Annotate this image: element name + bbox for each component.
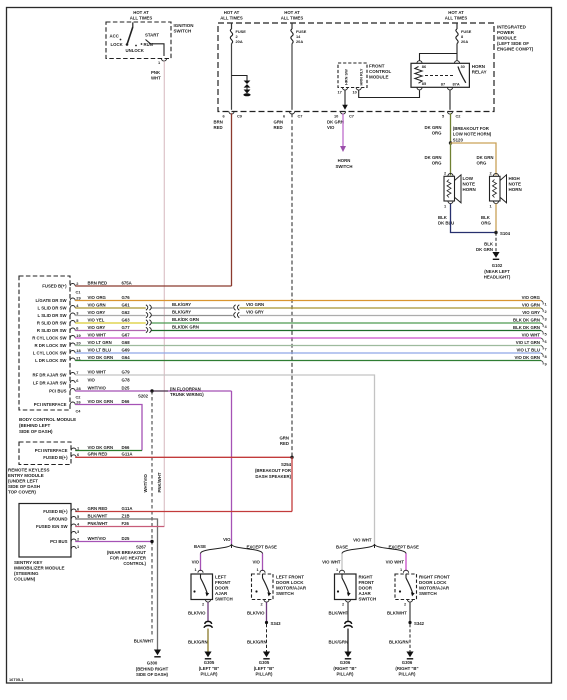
svg-text:VIO WHT: VIO WHT: [353, 538, 372, 543]
svg-text:(LEFT SIDE OF: (LEFT SIDE OF: [497, 41, 529, 46]
svg-text:RIGHT FRONT: RIGHT FRONT: [419, 575, 450, 580]
svg-text:GRN: GRN: [279, 436, 289, 441]
wire VIO WHT to right front door lock motor switch: [386, 554, 406, 572]
ground G305 (left motor switch): [254, 652, 275, 677]
svg-text:AJAR: AJAR: [359, 591, 372, 596]
svg-text:SIDE OF DASH): SIDE OF DASH): [19, 429, 53, 434]
svg-text:BLK/GRY: BLK/GRY: [172, 309, 191, 314]
svg-text:G305: G305: [204, 660, 215, 665]
svg-text:S120: S120: [453, 137, 464, 142]
svg-text:FUSED B(+): FUSED B(+): [43, 455, 68, 460]
wire BLK/VIO below left motor switch: [247, 602, 267, 621]
svg-text:SWITCH: SWITCH: [174, 29, 192, 34]
body control module box: [19, 276, 76, 434]
BCM pin 6 R SLID DR SW wire VIO GRY G77: [37, 325, 130, 333]
wire BLK/DK BLU from low note horn: [438, 204, 496, 233]
BCM pin 28 PCI BUS wire WHT/VIO D25: [49, 385, 130, 393]
svg-text:(UNDER LEFT: (UNDER LEFT: [8, 479, 38, 484]
right front door lock motor/ajar switch: [395, 567, 450, 607]
right front door ajar switch: [335, 567, 377, 607]
svg-text:VIO: VIO: [327, 125, 335, 130]
svg-text:(BREAKOUT FOR: (BREAKOUT FOR: [255, 468, 292, 473]
svg-text:VIO WHT: VIO WHT: [88, 332, 107, 337]
svg-text:BLK/DK GRN: BLK/DK GRN: [172, 317, 199, 322]
svg-text:START: START: [145, 32, 159, 37]
svg-text:BLK: BLK: [481, 215, 491, 220]
svg-text:WHT/VIO: WHT/VIO: [88, 536, 107, 541]
svg-text:HORN: HORN: [509, 187, 522, 192]
svg-text:RIGHT: RIGHT: [359, 575, 373, 580]
svg-text:WHT/VIO: WHT/VIO: [88, 385, 107, 390]
ignition switch label HOT AT ALL TIMES: [130, 10, 153, 21]
svg-text:BASE: BASE: [194, 544, 206, 549]
svg-text:G63: G63: [122, 317, 131, 322]
connector 6 C9: [223, 112, 243, 119]
svg-text:(BREAKOUT FOR: (BREAKOUT FOR: [453, 126, 490, 131]
wire relay pin 87 to connector C2: [449, 90, 451, 110]
svg-text:BLK/WHT: BLK/WHT: [387, 611, 407, 616]
svg-text:R SLID DR SW: R SLID DR SW: [37, 321, 68, 326]
svg-text:16T05-1: 16T05-1: [9, 677, 24, 682]
svg-text:GROUND: GROUND: [48, 517, 67, 522]
wire DK GRN/ORG to high note horn: [451, 143, 497, 175]
svg-text:SWITCH: SWITCH: [215, 597, 233, 602]
diode symbol inside IPM: [243, 81, 250, 97]
svg-text:DK GRN: DK GRN: [425, 125, 442, 130]
svg-text:17: 17: [338, 90, 342, 95]
svg-text:G77: G77: [122, 325, 131, 330]
BCM pin 2 FUSED B(+) wire BRN RED 675A: [42, 280, 132, 288]
svg-text:GRN: GRN: [274, 120, 284, 125]
svg-text:HORN: HORN: [338, 158, 351, 163]
svg-text:GRN RED: GRN RED: [88, 452, 108, 457]
wire VIO LF door ajar vertical: [231, 391, 233, 544]
svg-text:BLK/DK GRN: BLK/DK GRN: [172, 324, 199, 329]
wire branch to diode: [232, 76, 248, 81]
svg-text:(IN FLOORPAN: (IN FLOORPAN: [170, 386, 201, 391]
svg-text:RED: RED: [214, 125, 223, 130]
svg-text:R CYL LOCK SW: R CYL LOCK SW: [32, 336, 67, 341]
svg-text:SWITCH: SWITCH: [419, 591, 437, 596]
svg-text:MOTOR/AJAR: MOTOR/AJAR: [419, 586, 450, 591]
wire FCM pin 17 horn switch input: [342, 90, 348, 110]
svg-text:S343: S343: [271, 621, 282, 626]
wire VIO to left front door ajar switch: [192, 554, 201, 572]
svg-text:ACC: ACC: [110, 33, 119, 38]
svg-text:VIO: VIO: [253, 560, 261, 565]
svg-text:SENTRY KEY: SENTRY KEY: [14, 560, 43, 565]
wire VIO GRY G62 segments: [75, 315, 541, 317]
svg-text:L CYL LOCK SW: L CYL LOCK SW: [33, 351, 68, 356]
inline connector (rows VIO GRN / VIO GRY / VIO YEL / VIO GRY): [146, 305, 151, 333]
svg-text:PILLAR): PILLAR): [256, 672, 274, 677]
splice S267: [107, 540, 154, 566]
wire BLK/GRN dashed to ground G306: [389, 624, 410, 652]
svg-text:UNLOCK: UNLOCK: [126, 48, 145, 53]
svg-text:ALL TIMES: ALL TIMES: [130, 16, 153, 21]
svg-text:ORG: ORG: [432, 131, 442, 136]
svg-text:RELAY: RELAY: [472, 70, 487, 75]
svg-text:VIO DK GRN: VIO DK GRN: [88, 445, 114, 450]
svg-text:G69: G69: [122, 347, 131, 352]
svg-text:HRN SW: HRN SW: [344, 69, 349, 85]
svg-text:HIGH: HIGH: [509, 176, 520, 181]
svg-text:HRN RLY: HRN RLY: [359, 68, 364, 85]
right edge connector labels and pins: [513, 295, 547, 366]
svg-text:FUSED IGN SW: FUSED IGN SW: [36, 524, 68, 529]
wire VIO LT GRN G68: [75, 345, 541, 347]
wire DK GRN/ORG to low note horn: [425, 143, 451, 175]
svg-text:R SLID DR SW: R SLID DR SW: [37, 328, 68, 333]
svg-text:PNK/WHT: PNK/WHT: [88, 521, 108, 526]
svg-text:IMMOBILIZER MODULE: IMMOBILIZER MODULE: [14, 566, 65, 571]
svg-text:HORN: HORN: [463, 187, 476, 192]
horn relay: [411, 61, 487, 90]
svg-text:BLK/GRY: BLK/GRY: [172, 302, 191, 307]
svg-text:ORG: ORG: [477, 161, 487, 166]
svg-text:VIO GRY: VIO GRY: [522, 310, 540, 315]
svg-text:HORN: HORN: [472, 64, 485, 69]
svg-text:L/GATE DR SW: L/GATE DR SW: [36, 298, 68, 303]
svg-text:PCI BUS: PCI BUS: [50, 539, 68, 544]
svg-text:S104: S104: [500, 231, 511, 236]
svg-text:BLK/VIO: BLK/VIO: [247, 611, 265, 616]
svg-text:10: 10: [334, 114, 338, 119]
svg-text:G300: G300: [147, 661, 158, 666]
fuse F2: [230, 23, 246, 44]
RKE wire labels VIO DK GRN D66: [88, 445, 130, 450]
svg-text:RED: RED: [280, 441, 289, 446]
wire BLK/WHT SKIM ground to G300: [75, 513, 157, 649]
splice S120: [449, 126, 492, 145]
wire VIO to left front door lock motor switch: [253, 554, 263, 572]
svg-text:PNK/WHT: PNK/WHT: [157, 472, 162, 492]
svg-text:VIO LT BLU: VIO LT BLU: [88, 347, 112, 352]
svg-text:ORG: ORG: [481, 221, 491, 226]
ignition switch S1: [106, 22, 194, 65]
svg-text:G79: G79: [122, 369, 131, 374]
wire VIO ORG G76: [75, 300, 541, 302]
BCM pin 19 R CYL LOCK SW wire VIO WHT G67: [32, 332, 130, 340]
svg-text:G61: G61: [122, 302, 131, 307]
connector 6 C7: [283, 112, 302, 119]
svg-text:G305: G305: [259, 660, 270, 665]
wire VIO WHT to right front door ajar switch: [322, 554, 342, 572]
wire PNK/WHT SKIM fused ign sw: [75, 521, 164, 527]
svg-text:REMOTE KEYLESS: REMOTE KEYLESS: [8, 468, 50, 473]
svg-text:COLUMN): COLUMN): [14, 577, 36, 582]
svg-text:VIO LT GRN: VIO LT GRN: [88, 340, 112, 345]
svg-text:SWITCH: SWITCH: [276, 591, 294, 596]
svg-text:G68: G68: [122, 340, 131, 345]
svg-text:RF DR AJAR SW: RF DR AJAR SW: [33, 373, 68, 378]
svg-text:VIO LT BLU: VIO LT BLU: [516, 348, 540, 353]
svg-text:HEADLIGHT): HEADLIGHT): [484, 275, 511, 280]
svg-text:VIO WHT: VIO WHT: [522, 333, 541, 338]
svg-text:PILLAR): PILLAR): [201, 672, 219, 677]
connector 5 C2: [442, 112, 461, 119]
wire BLK/WHT below right motor switch: [387, 602, 410, 621]
svg-text:DK GRN: DK GRN: [425, 155, 442, 160]
svg-text:G306: G306: [340, 660, 351, 665]
svg-text:VIO YEL: VIO YEL: [88, 317, 105, 322]
svg-text:S254: S254: [281, 462, 292, 467]
ground G102: [484, 252, 511, 280]
svg-text:FUSED B(+): FUSED B(+): [42, 284, 67, 289]
svg-text:L DR LOCK SW: L DR LOCK SW: [35, 358, 67, 363]
svg-text:PNK: PNK: [151, 70, 161, 75]
svg-text:VIO ORG: VIO ORG: [88, 295, 107, 300]
svg-text:DASH SPEAKER): DASH SPEAKER): [255, 474, 291, 479]
svg-text:G67: G67: [122, 332, 131, 337]
svg-text:PILLAR): PILLAR): [399, 672, 417, 677]
svg-text:C2: C2: [76, 395, 82, 400]
connector 10 C7: [334, 112, 354, 119]
svg-text:FRONT: FRONT: [369, 64, 385, 69]
svg-text:VIO LT GRN: VIO LT GRN: [516, 340, 540, 345]
svg-text:GRN RED: GRN RED: [88, 506, 108, 511]
svg-text:S267: S267: [136, 545, 147, 550]
svg-text:DOOR LOCK: DOOR LOCK: [276, 580, 304, 585]
SKIM wire labels GRN RED G11A: [88, 506, 133, 511]
svg-text:G11A: G11A: [122, 452, 133, 457]
BCM pin 18 L CYL LOCK SW wire VIO LT BLU G69: [33, 347, 130, 355]
svg-text:ENTRY MODULE: ENTRY MODULE: [8, 473, 44, 478]
svg-text:DOOR: DOOR: [215, 586, 229, 591]
wire fuse F8 to relay pins 30 and 86: [420, 44, 458, 62]
svg-text:BRN: BRN: [214, 120, 223, 125]
BCM pin 3 L SLID DR SW wire VIO GRY G62: [37, 310, 130, 318]
svg-text:NOTE: NOTE: [509, 182, 522, 187]
splice S104: [494, 231, 510, 236]
wire GRN RED S254 to SKIM: [75, 457, 292, 511]
svg-text:FOR A/C HEATER: FOR A/C HEATER: [110, 556, 147, 561]
svg-text:D25: D25: [122, 536, 130, 541]
svg-text:7: 7: [545, 347, 547, 352]
svg-text:D66: D66: [122, 399, 130, 404]
svg-text:NOTE: NOTE: [463, 182, 476, 187]
wire GRN RED RKE fused B+ to splice S254: [75, 452, 292, 458]
svg-text:PCI BUS: PCI BUS: [49, 389, 67, 394]
svg-text:C4: C4: [76, 409, 82, 414]
wire WHT/VIO PCI bus from BCM to splice S202: [75, 390, 231, 392]
svg-text:VIO WHT: VIO WHT: [322, 560, 341, 565]
BCM pin 29 L/GATE DR SW wire VIO ORG G76: [36, 295, 131, 303]
wire BLK/DK GRN to ground G102: [476, 233, 496, 253]
ground G306 (right ajar switch): [333, 652, 356, 677]
svg-text:7: 7: [76, 370, 78, 375]
svg-text:(RIGHT "B": (RIGHT "B": [333, 666, 356, 671]
BCM pin 4 L SLID DR SW wire VIO GRN G61: [37, 302, 130, 310]
svg-text:87: 87: [441, 82, 445, 87]
svg-text:FRONT: FRONT: [359, 580, 375, 585]
svg-text:F26: F26: [122, 521, 130, 526]
svg-text:ALL TIMES: ALL TIMES: [220, 16, 243, 21]
svg-text:G62: G62: [122, 310, 131, 315]
svg-text:BLK/GRN: BLK/GRN: [329, 640, 349, 645]
svg-text:BLK DK GRN: BLK DK GRN: [513, 325, 540, 330]
svg-text:R DR LOCK SW: R DR LOCK SW: [35, 343, 68, 348]
wire GRN/RED dashed from IPM C7 to splice S254: [274, 113, 293, 456]
svg-text:VIO GRY: VIO GRY: [88, 310, 106, 315]
wire BLK/VIO below left ajar switch: [188, 602, 208, 622]
svg-text:BLK/VIO: BLK/VIO: [188, 611, 206, 616]
svg-text:L SLID DR SW: L SLID DR SW: [37, 313, 67, 318]
svg-text:G78: G78: [122, 377, 131, 382]
wire BLK/WHT below right ajar switch: [329, 602, 349, 622]
svg-text:IGNITION: IGNITION: [174, 23, 194, 28]
svg-text:DOOR LOCK: DOOR LOCK: [419, 580, 447, 585]
wire VIO LT BLU G69: [75, 352, 541, 354]
BCM pin 26 PCI INTERFACE wire VIO DK GRN D66: [34, 399, 130, 407]
svg-text:(LEFT "B": (LEFT "B": [254, 666, 275, 671]
inline connector right ajar ground wire: [344, 621, 352, 627]
svg-text:G64: G64: [122, 355, 131, 360]
svg-text:BLK: BLK: [438, 215, 448, 220]
wire BLK/ORG from high note horn: [481, 204, 496, 233]
wire BLK/GRN dashed to ground G305: [247, 624, 267, 652]
svg-text:(STEERING: (STEERING: [14, 571, 39, 576]
svg-text:MODULE: MODULE: [497, 36, 517, 41]
wire VIO WHT RF door ajar vertical: [75, 375, 374, 544]
svg-text:ENGINE COMPT): ENGINE COMPT): [497, 47, 534, 52]
svg-text:TRUNK WIRING): TRUNK WIRING): [170, 392, 204, 397]
BCM pin 6 LF DR AJAR SW wire VIO G78: [33, 377, 130, 385]
svg-text:WHT/VIO: WHT/VIO: [143, 473, 148, 492]
svg-text:PCI INTERFACE: PCI INTERFACE: [34, 402, 67, 407]
wire PNK/WHT from ignition switch to SKIM: [151, 61, 164, 526]
ground G305 (left ajar switch): [199, 652, 220, 677]
svg-text:(LEFT "B": (LEFT "B": [199, 666, 220, 671]
svg-text:PCI INTERFACE: PCI INTERFACE: [35, 448, 68, 453]
svg-text:RUN: RUN: [144, 42, 153, 47]
splice S254: [255, 436, 294, 480]
svg-text:ORG: ORG: [432, 161, 442, 166]
svg-text:BRN RED: BRN RED: [88, 280, 108, 285]
svg-text:EXCEPT BASE: EXCEPT BASE: [389, 545, 419, 550]
svg-text:AJAR: AJAR: [215, 591, 228, 596]
svg-text:DK GRN: DK GRN: [327, 120, 344, 125]
split right BASE / EXCEPT BASE: [342, 544, 406, 554]
BCM pin 7 RF DR AJAR SW wire VIO WHT G79: [33, 369, 131, 377]
svg-text:G306: G306: [402, 660, 413, 665]
svg-text:VIO WHT: VIO WHT: [386, 560, 405, 565]
svg-text:VIO GRN: VIO GRN: [522, 303, 540, 308]
svg-text:S202: S202: [138, 394, 149, 399]
wire BLK/GRN to ground G305: [188, 629, 208, 652]
fuse F8: [456, 23, 472, 44]
svg-text:FUSED B(+): FUSED B(+): [43, 509, 68, 514]
svg-text:(NEAR LEFT: (NEAR LEFT: [484, 269, 510, 274]
svg-text:INTEGRATED: INTEGRATED: [497, 25, 527, 30]
svg-text:VIO GRN: VIO GRN: [88, 302, 106, 307]
wire VIO DK GRN G64: [75, 360, 541, 362]
svg-text:C7: C7: [349, 114, 354, 119]
svg-text:HOT AT: HOT AT: [133, 10, 149, 15]
front control module box: [338, 63, 392, 95]
integrated power module box: [218, 23, 534, 112]
wire DK GRN/ORG from IPM C2 to splice S120: [425, 113, 451, 143]
svg-text:VIO GRY: VIO GRY: [88, 325, 106, 330]
svg-text:DOOR: DOOR: [359, 586, 373, 591]
svg-text:BLK/WHT: BLK/WHT: [329, 611, 349, 616]
svg-text:C1: C1: [76, 290, 82, 295]
wire VIO WHT G67: [75, 337, 541, 339]
svg-text:MOTOR/AJAR: MOTOR/AJAR: [276, 586, 307, 591]
fuse F14: [291, 23, 307, 44]
svg-text:LEFT: LEFT: [215, 575, 226, 580]
svg-text:POWER: POWER: [497, 30, 515, 35]
svg-text:BODY CONTROL MODULE: BODY CONTROL MODULE: [19, 417, 76, 422]
ground G306 (right motor switch): [395, 652, 418, 677]
svg-text:G76: G76: [122, 295, 131, 300]
svg-text:(BEHIND LEFT: (BEHIND LEFT: [19, 423, 50, 428]
svg-text:LEFT FRONT: LEFT FRONT: [276, 575, 304, 580]
svg-text:VIO GRN: VIO GRN: [246, 302, 264, 307]
svg-text:10: 10: [353, 90, 357, 95]
svg-text:VIO DK GRN: VIO DK GRN: [88, 399, 114, 404]
splice S342: [408, 621, 424, 626]
svg-text:D25: D25: [122, 385, 130, 390]
ground G300: [134, 639, 169, 678]
svg-text:SIDE OF DASH: SIDE OF DASH: [8, 484, 40, 489]
svg-text:Z1B: Z1B: [122, 513, 130, 518]
BCM pin 20 R DR LOCK SW wire VIO LT GRN G68: [35, 340, 131, 348]
svg-text:D66: D66: [122, 445, 130, 450]
svg-text:VIO: VIO: [223, 537, 231, 542]
svg-text:SIDE OF DASH): SIDE OF DASH): [136, 672, 169, 677]
svg-text:20A: 20A: [236, 39, 243, 44]
svg-text:VIO: VIO: [88, 377, 96, 382]
svg-text:VIO: VIO: [192, 560, 200, 565]
svg-text:BLK/WHT: BLK/WHT: [88, 513, 108, 518]
svg-text:VIO DK GRN: VIO DK GRN: [88, 355, 114, 360]
svg-text:L SLID DR SW: L SLID DR SW: [37, 306, 67, 311]
svg-text:HOT AT: HOT AT: [284, 10, 300, 15]
svg-text:BASE: BASE: [336, 545, 348, 550]
svg-text:DK BLU: DK BLU: [438, 221, 454, 226]
splice S343: [265, 621, 281, 626]
svg-text:675A: 675A: [122, 280, 132, 285]
svg-text:PILLAR): PILLAR): [337, 672, 355, 677]
svg-text:LOCK: LOCK: [111, 42, 124, 47]
svg-text:VIO ORG: VIO ORG: [522, 295, 541, 300]
svg-text:BLK DK GRN: BLK DK GRN: [513, 318, 540, 323]
svg-text:SWITCH: SWITCH: [336, 164, 353, 169]
svg-text:ALL TIMES: ALL TIMES: [445, 16, 468, 21]
wire VIO GRY G77 then BLK/DK GRN: [75, 330, 541, 332]
wire VIO DK GRN PCI interface BCM to RKE: [75, 405, 142, 451]
wire VIO YEL G63 then BLK/DK GRN: [75, 322, 541, 324]
svg-text:VIO DK GRN: VIO DK GRN: [514, 355, 540, 360]
BCM pin 21 L DR LOCK SW wire VIO DK GRN G64: [35, 355, 130, 363]
svg-text:30: 30: [461, 64, 465, 69]
wire VIO GRN G61 segments: [75, 307, 541, 309]
svg-text:87A: 87A: [453, 82, 460, 87]
wire FCM pin 10 to horn relay coil: [359, 90, 420, 97]
svg-text:DK GRN: DK GRN: [476, 247, 493, 252]
remote keyless entry module box: [8, 442, 80, 495]
svg-text:VIO GRY: VIO GRY: [246, 309, 264, 314]
svg-text:C2: C2: [456, 114, 462, 119]
BCM pin 5 R SLID DR SW wire VIO YEL G63: [37, 317, 130, 325]
svg-text:CONTROL): CONTROL): [123, 561, 146, 566]
left front door ajar switch: [191, 567, 233, 607]
wire fuse F2 output inside IPM: [231, 44, 233, 110]
wire WHT/VIO SKIM PCI bus to splice S267: [75, 536, 152, 542]
svg-text:C9: C9: [237, 114, 243, 119]
svg-text:BLK/GRN: BLK/GRN: [389, 640, 409, 645]
